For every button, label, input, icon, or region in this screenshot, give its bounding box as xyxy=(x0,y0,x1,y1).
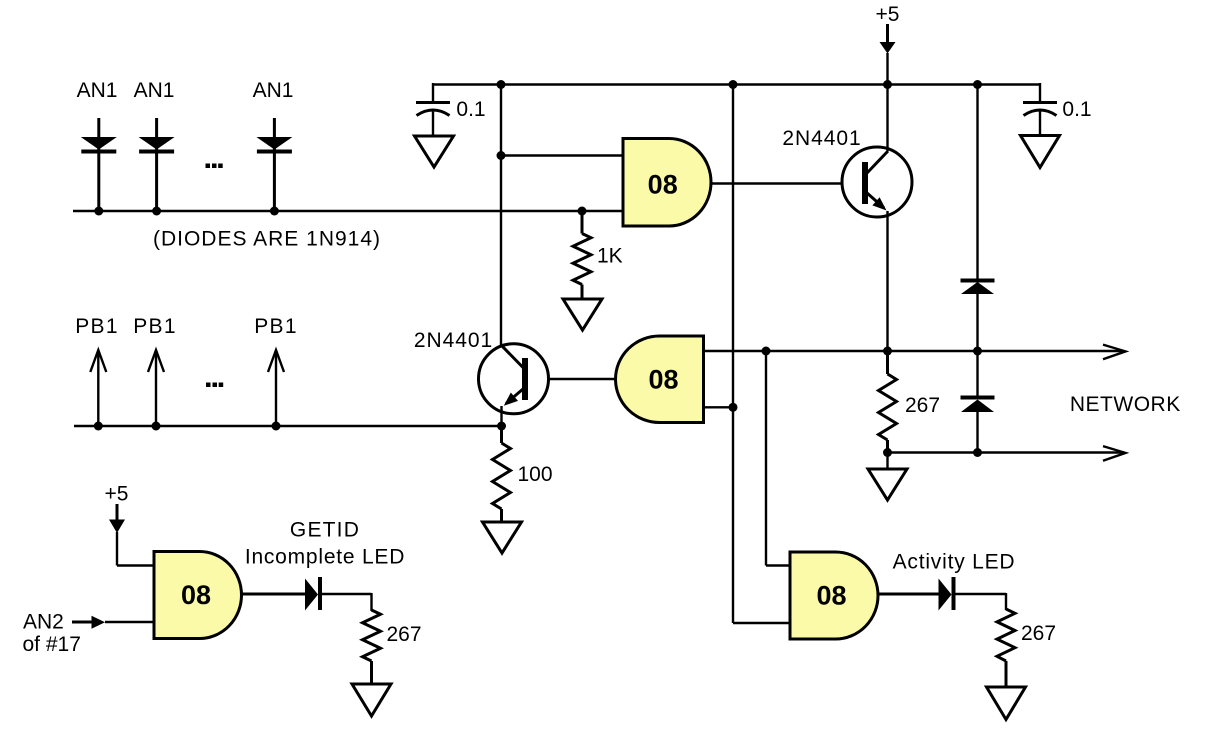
junction node: PB1 bus / arrow 2 xyxy=(152,422,161,431)
label PB1 (arrow 2) xyxy=(133,315,177,338)
label GETID xyxy=(290,519,360,542)
label 267 for R5 xyxy=(1021,622,1056,645)
input arrow PB1 #1 xyxy=(90,350,106,426)
svg-text:AN1: AN1 xyxy=(253,79,294,102)
wire: U3 output to LED D6 xyxy=(242,593,306,596)
AND gate U4 (7408, Activity) xyxy=(790,552,878,639)
wire: Q2 emitter down to network line 1 xyxy=(886,211,888,351)
svg-text:08: 08 xyxy=(648,169,678,199)
wire: U2 output to Q1 base xyxy=(528,378,616,380)
transistor Q2 2N4401 (top right) xyxy=(842,147,912,217)
svg-text:of #17: of #17 xyxy=(23,633,81,656)
wire: +5 supply rail (top horizontal) xyxy=(433,83,1040,85)
svg-text:(DIODES ARE 1N914): (DIODES ARE 1N914) xyxy=(153,228,381,251)
junction node: PB1 bus / arrow 3 xyxy=(272,422,281,431)
wire: vertical net x=733 from rail to U4 lower input xyxy=(733,85,790,624)
wire: Q1 emitter to PB1 bus xyxy=(500,406,502,426)
wire: vertical net from rail junction to Q1 collector xyxy=(500,85,502,347)
ground below R4 xyxy=(352,684,391,716)
svg-text:AN1: AN1 xyxy=(77,79,118,102)
svg-text:PB1: PB1 xyxy=(133,315,177,338)
svg-text:PB1: PB1 xyxy=(254,315,298,338)
svg-text:NETWORK: NETWORK xyxy=(1070,393,1181,416)
wire: AN1 diode bus to U1 lower input xyxy=(73,210,623,212)
junction node: bus / D3 xyxy=(270,207,279,216)
label Activity LED xyxy=(893,551,1016,574)
wire: U4 output to LED D7 xyxy=(878,593,939,596)
junction node: rail / +5 entry and Q2 collector xyxy=(883,80,892,89)
diode D5 (clamp, cathode up) xyxy=(961,351,995,453)
AND gate U3 (7408, GETID) xyxy=(154,552,242,639)
label (DIODES ARE 1N914) xyxy=(153,228,381,251)
svg-text:08: 08 xyxy=(816,581,846,611)
label 0.1 for C1 xyxy=(456,98,485,121)
label 267 for R4 xyxy=(387,623,422,646)
diode D4 (clamp to +5, cathode up) xyxy=(961,85,995,352)
power +5 arrow (bottom left, feeds U3 upper input) xyxy=(109,504,154,566)
svg-text:+5: +5 xyxy=(105,483,129,506)
junction node: bus / D2 xyxy=(152,207,161,216)
ground below R3 xyxy=(868,469,907,500)
svg-text:2N4401: 2N4401 xyxy=(414,329,493,352)
label 08 inside U3 xyxy=(181,580,211,610)
ground below C2 xyxy=(1021,136,1060,168)
input arrow PB1 #3 xyxy=(268,350,284,426)
label 2N4401 for Q2 xyxy=(782,127,861,150)
wire: network line 1 (upper) with arrow xyxy=(704,345,1126,360)
svg-text:Activity LED: Activity LED xyxy=(893,551,1016,574)
svg-text:GETID: GETID xyxy=(290,519,360,542)
svg-text:PB1: PB1 xyxy=(75,315,119,338)
resistor R1 1K (pull-down on bus) xyxy=(573,211,591,299)
junction node: rail / x=733 vertical xyxy=(729,80,738,89)
wire: network line 2 (lower) with arrow xyxy=(888,446,1126,461)
label AN1 (diode D1) xyxy=(77,79,118,102)
svg-text:AN1: AN1 xyxy=(134,79,175,102)
label PB1 (arrow 3) xyxy=(254,315,298,338)
capacitor C2 0.1 (right bypass) xyxy=(1023,83,1057,136)
ground below R1 xyxy=(563,299,602,330)
junction node: net1 / Q2 emitter / R3 xyxy=(883,347,892,356)
label PB1 (arrow 1) xyxy=(75,315,119,338)
junction node: rail / x=501 vertical xyxy=(497,80,506,89)
label Incomplete LED xyxy=(245,546,405,569)
resistor R4 267 (GETID LED) xyxy=(363,610,381,684)
diode D1 AN1 (cathode down to bus) xyxy=(81,118,117,211)
label +5 (top) xyxy=(876,3,900,26)
svg-text:1K: 1K xyxy=(597,245,623,268)
ground below R2 xyxy=(483,522,522,553)
label 0.1 for C2 xyxy=(1062,98,1091,121)
label NETWORK xyxy=(1070,393,1181,416)
svg-text:267: 267 xyxy=(1021,622,1056,645)
label 1K for R1 xyxy=(597,245,623,268)
svg-text:267: 267 xyxy=(905,394,940,417)
svg-text:08: 08 xyxy=(181,580,211,610)
svg-text:AN2: AN2 xyxy=(23,611,64,634)
label of #17 xyxy=(23,633,81,656)
power +5 arrow (top, feeds rail and Q2 collector) xyxy=(880,24,896,85)
wire: LED D6 to R4 xyxy=(322,593,372,611)
label 267 for R3 xyxy=(905,394,940,417)
junction node: PB1 bus / arrow 1 xyxy=(94,422,103,431)
ellipsis between D2 and D3 xyxy=(206,164,223,169)
capacitor C1 0.1 (left bypass) xyxy=(416,83,450,136)
wire: LED D7 to R5 xyxy=(956,593,1007,610)
label 08 inside U4 xyxy=(816,581,846,611)
junction node: R3 / network line 2 / ground xyxy=(883,448,892,457)
LED D6 (GETID Incomplete LED) xyxy=(305,577,322,611)
AND gate U1 (7408) xyxy=(623,139,711,227)
label 08 inside U2 xyxy=(648,365,678,395)
AND gate U2 (7408, mirrored, output drives Q1 base) xyxy=(616,336,704,423)
junction node: PB1 bus / Q1 emitter / R2 xyxy=(497,422,506,431)
label 2N4401 for Q1 xyxy=(414,329,493,352)
junction node: x=733 / U2 lower input xyxy=(729,403,738,412)
svg-text:+5: +5 xyxy=(876,3,900,26)
label +5 (bottom) xyxy=(105,483,129,506)
wire: vertical net x=766 to U4 upper input xyxy=(766,351,790,566)
svg-text:0.1: 0.1 xyxy=(1062,98,1091,121)
input arrow AN2 xyxy=(72,616,154,629)
label 100 for R2 xyxy=(518,463,553,486)
label AN1 (diode D2) xyxy=(134,79,175,102)
resistor R5 267 (Activity LED) xyxy=(997,609,1015,687)
junction node: net1 / clamp diodes xyxy=(973,347,982,356)
junction node: bus / D1 xyxy=(94,207,103,216)
svg-text:2N4401: 2N4401 xyxy=(782,127,861,150)
wire: PB1 bus xyxy=(74,425,502,427)
diode D2 AN1 xyxy=(139,118,175,211)
wire: Q2 collector to rail xyxy=(886,85,888,152)
svg-text:Incomplete LED: Incomplete LED xyxy=(245,546,405,569)
junction node: net2 / clamp diodes xyxy=(973,448,982,457)
resistor R3 267 (network pulldown) xyxy=(879,351,897,453)
junction node: x=501 / U1 input A branch xyxy=(497,151,506,160)
resistor R2 100 (emitter load) xyxy=(493,426,511,522)
input arrow PB1 #2 xyxy=(148,350,164,426)
label AN2 xyxy=(23,611,64,634)
ellipsis between PB1 arrows xyxy=(206,383,223,388)
junction node: rail / clamp diode string xyxy=(973,80,982,89)
junction node: bus / R1 xyxy=(578,207,587,216)
transistor Q1 2N4401 (mirrored) xyxy=(479,344,549,414)
diode D3 AN1 xyxy=(256,118,292,211)
ground below C1 xyxy=(415,136,454,167)
svg-text:100: 100 xyxy=(518,463,553,486)
svg-text:267: 267 xyxy=(387,623,422,646)
wire: branch to U1 upper input xyxy=(501,154,623,156)
svg-text:0.1: 0.1 xyxy=(456,98,485,121)
label AN1 (diode D3) xyxy=(253,79,294,102)
ground below R5 xyxy=(987,687,1026,720)
wire: U1 output to Q2 base xyxy=(711,182,862,184)
wire: U2 lower input stub xyxy=(704,406,734,408)
label 08 inside U1 xyxy=(648,169,678,199)
svg-text:08: 08 xyxy=(648,365,678,395)
junction node: net1 / x=766 vertical xyxy=(762,347,771,356)
wire: stub to ground xyxy=(886,453,888,470)
LED D7 (Activity LED) xyxy=(939,577,956,611)
